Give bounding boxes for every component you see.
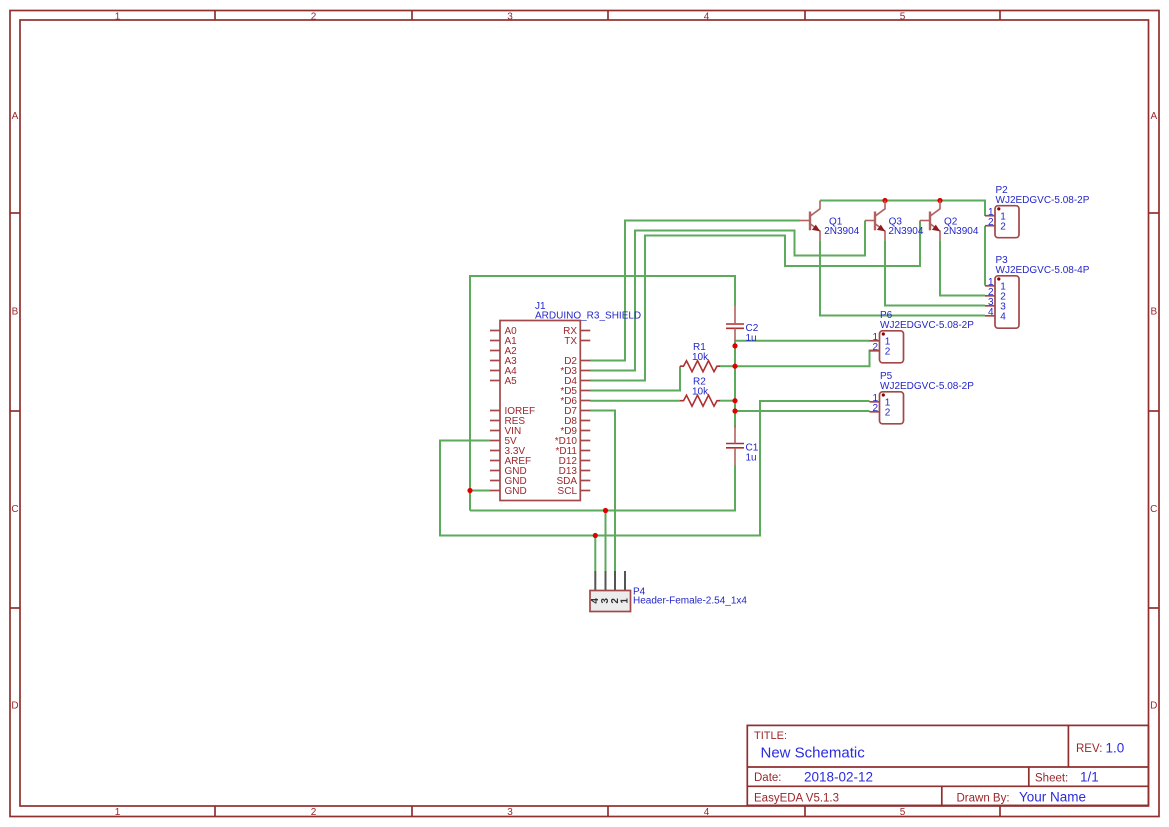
svg-text:D: D <box>11 701 18 712</box>
svg-text:10k: 10k <box>692 352 709 363</box>
svg-text:2: 2 <box>872 342 878 353</box>
svg-text:Your Name: Your Name <box>1019 790 1086 805</box>
svg-text:4: 4 <box>704 12 710 23</box>
svg-text:B: B <box>12 307 19 318</box>
svg-text:TX: TX <box>564 336 577 347</box>
svg-text:C: C <box>11 504 18 515</box>
svg-text:REV:: REV: <box>1076 743 1102 755</box>
svg-text:C: C <box>1150 504 1157 515</box>
svg-text:1u: 1u <box>746 453 757 464</box>
svg-text:2018-02-12: 2018-02-12 <box>804 770 873 785</box>
svg-text:4: 4 <box>988 307 994 318</box>
svg-text:1: 1 <box>620 598 631 604</box>
svg-text:A: A <box>12 111 19 122</box>
svg-text:ARDUINO_R3_SHIELD: ARDUINO_R3_SHIELD <box>535 311 641 322</box>
svg-text:2: 2 <box>1000 222 1006 233</box>
svg-text:2: 2 <box>885 408 891 419</box>
svg-text:2: 2 <box>311 12 317 23</box>
svg-text:10k: 10k <box>692 387 709 398</box>
svg-text:2N3904: 2N3904 <box>824 226 859 237</box>
svg-text:3: 3 <box>507 12 513 23</box>
svg-text:2N3904: 2N3904 <box>943 226 978 237</box>
svg-text:WJ2EDGVC-5.08-2P: WJ2EDGVC-5.08-2P <box>880 320 974 331</box>
svg-text:1: 1 <box>115 807 121 818</box>
svg-text:New Schematic: New Schematic <box>761 745 866 762</box>
svg-text:1u: 1u <box>746 333 757 344</box>
svg-text:2N3904: 2N3904 <box>888 226 923 237</box>
svg-text:TITLE:: TITLE: <box>754 730 787 742</box>
svg-text:Date:: Date: <box>754 772 782 784</box>
svg-text:EasyEDA V5.1.3: EasyEDA V5.1.3 <box>754 793 839 805</box>
svg-text:SCL: SCL <box>558 486 578 497</box>
svg-text:A: A <box>1150 111 1157 122</box>
svg-text:Drawn By:: Drawn By: <box>957 793 1010 805</box>
svg-text:1/1: 1/1 <box>1080 770 1099 785</box>
svg-text:Sheet:: Sheet: <box>1035 773 1068 785</box>
svg-text:1.0: 1.0 <box>1106 741 1125 756</box>
svg-text:4: 4 <box>1000 312 1006 323</box>
svg-text:A5: A5 <box>505 376 518 387</box>
svg-text:WJ2EDGVC-5.08-2P: WJ2EDGVC-5.08-2P <box>880 381 974 392</box>
svg-text:WJ2EDGVC-5.08-2P: WJ2EDGVC-5.08-2P <box>996 195 1090 206</box>
svg-text:GND: GND <box>505 486 527 497</box>
svg-text:5: 5 <box>900 12 906 23</box>
svg-text:D: D <box>1150 701 1157 712</box>
svg-text:2: 2 <box>885 347 891 358</box>
svg-text:Header-Female-2.54_1x4: Header-Female-2.54_1x4 <box>633 596 747 607</box>
svg-text:4: 4 <box>704 807 710 818</box>
svg-text:WJ2EDGVC-5.08-4P: WJ2EDGVC-5.08-4P <box>996 265 1090 276</box>
svg-text:5: 5 <box>900 807 906 818</box>
svg-text:3: 3 <box>507 807 513 818</box>
svg-text:2: 2 <box>872 403 878 414</box>
svg-text:2: 2 <box>988 217 994 228</box>
svg-text:1: 1 <box>115 12 121 23</box>
svg-text:2: 2 <box>311 807 317 818</box>
svg-text:B: B <box>1150 307 1157 318</box>
